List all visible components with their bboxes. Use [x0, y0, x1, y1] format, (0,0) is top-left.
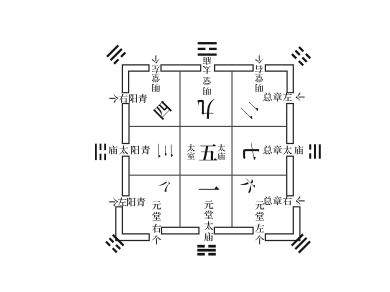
number 2 palace top-right — [241, 99, 261, 119]
center room label Miao right — [217, 152, 225, 160]
number 6 palace bottom-right — [240, 176, 258, 194]
trigram Zhen (thunder) east left-middle — [95, 144, 106, 160]
wall right segment north — [287, 104, 294, 144]
door label north-west gate: Yuantang you ge — [152, 201, 161, 210]
door label south-east gate: Mingtang zuo ge (rotated 180) — [152, 55, 160, 63]
wall top segment west — [161, 65, 201, 71]
wall corner top-right L — [265, 65, 293, 93]
door label north-center gate: Yuantang Taimiao — [204, 200, 213, 209]
number 9 palace top-center — [198, 99, 215, 119]
trigram Gen (mountain) NE bottom-left corner — [105, 234, 124, 253]
door label west-center gate: Zongzhang Taimiao — [263, 146, 272, 155]
number 3 palace middle-left — [158, 144, 173, 158]
wall corner bottom-left L — [116, 207, 149, 241]
wall bottom segment west — [162, 227, 199, 234]
number 7 palace middle-right — [243, 143, 259, 160]
grid line horizontal south — [129, 174, 287, 176]
number 5 palace center — [199, 144, 217, 160]
wall bottom segment east — [214, 227, 253, 234]
door label east-south gate: Qingyang zuo ge — [109, 197, 118, 206]
number 8 palace bottom-left — [158, 178, 173, 193]
wall right segment south — [287, 156, 294, 196]
wall corner bottom-right L — [265, 207, 300, 241]
center room label Tai (of Taimiao) right — [217, 144, 225, 152]
door label north-east gate: Yuantang zuo ge — [255, 201, 264, 210]
trigram Xun (wind) SE top-left corner — [106, 45, 126, 65]
grid line vertical west — [179, 71, 181, 227]
door label west-north gate: Zongzhang zuo ge — [263, 93, 272, 102]
wall left segment north — [122, 104, 129, 144]
grid line horizontal north — [129, 125, 287, 127]
trigram Kun (earth) SW top-right corner — [291, 46, 311, 66]
door label south-center gate: Mingtang Taimiao (rotated 180) — [203, 57, 211, 65]
wall corner top-left L — [122, 65, 149, 93]
door label east-north gate: Qingyang you ge — [109, 94, 118, 103]
center room label Tai (of Taishi) left — [187, 144, 195, 152]
door label south-west gate: Mingtang you ge (rotated 180) — [255, 55, 263, 63]
trigram Dui (lake) west right-middle — [309, 144, 321, 158]
grid line vertical east — [231, 71, 233, 227]
center room label Shi left — [187, 152, 194, 159]
door label west-south gate: Zongzhang you ge — [263, 196, 272, 205]
wall top segment east — [215, 65, 254, 71]
trigram Kan (water) north bottom-center — [197, 245, 216, 256]
door label east-center gate: Qingyang Taimiao — [109, 145, 118, 154]
trigram Qian (heaven) NW bottom-right corner — [291, 234, 311, 254]
wall left segment south — [122, 156, 129, 196]
number 4 palace top-left — [153, 100, 173, 120]
trigram Li (fire) south top-center — [198, 42, 217, 56]
number 1 palace bottom-center — [199, 186, 220, 189]
